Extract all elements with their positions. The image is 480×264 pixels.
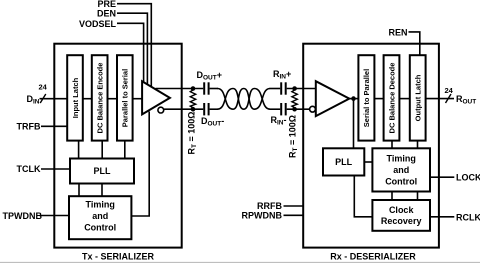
svg-text:TPWDNB: TPWDNB — [3, 211, 43, 221]
svg-text:Timing: Timing — [387, 154, 416, 164]
bus slash ROUT — [446, 94, 452, 103]
svg-text:TCLK: TCLK — [17, 164, 41, 174]
svg-text:Rx - DESERIALIZER: Rx - DESERIALIZER — [330, 251, 416, 261]
svg-text:Output Latch: Output Latch — [414, 74, 423, 121]
svg-text:LOCK: LOCK — [456, 173, 480, 183]
block DC Balance Decode — [384, 55, 400, 140]
wire DOUT+ — [156, 88, 204, 90]
wire Parallel to Serial to PLL — [124, 141, 126, 159]
svg-text:Serial to Parallel: Serial to Parallel — [362, 69, 371, 127]
wire DOUT- — [164, 108, 204, 110]
wire Serial to Parallel to DC Balance Decode — [374, 98, 383, 100]
inversion bubble (Rx comparator) — [310, 106, 316, 112]
svg-text:RPWDNB: RPWDNB — [242, 211, 283, 221]
junction dot DOUT+ — [191, 86, 196, 91]
wire TPWDNB — [40, 215, 69, 217]
wire DIN — [40, 98, 68, 100]
svg-text:RT = 100Ω: RT = 100Ω — [287, 115, 298, 158]
block PLL (Tx) — [70, 159, 134, 184]
svg-text:Tx - SERIALIZER: Tx - SERIALIZER — [82, 251, 155, 261]
inversion bubble (Tx driver) — [158, 107, 164, 113]
twisted pair cable wire B — [218, 89, 271, 110]
block Output Latch — [410, 55, 426, 140]
wire cap to twisted pair (top) — [210, 88, 218, 90]
wire PRE — [117, 4, 151, 87]
wire twisted pair to Rx cap (bottom) — [270, 108, 281, 110]
block PLL (Rx) — [323, 148, 364, 175]
wire PLL to Clock Recovery — [354, 176, 372, 217]
capacitor RIN- — [281, 103, 286, 115]
wire RIN- into Rx — [287, 108, 310, 110]
bus slash DIN — [40, 94, 46, 103]
wire DC Balance Encode to Parallel to Serial — [108, 98, 118, 100]
svg-text:DEN: DEN — [97, 9, 116, 19]
junction dot RIN- — [292, 107, 297, 112]
wire comparator output to PLL — [353, 99, 355, 149]
wire twisted pair to Rx cap (top) — [270, 88, 281, 90]
svg-text:and: and — [393, 165, 409, 175]
svg-text:24: 24 — [39, 82, 48, 91]
svg-text:24: 24 — [445, 86, 454, 95]
wire RRFB — [284, 205, 304, 207]
junction dot DOUT- — [191, 107, 196, 112]
svg-text:Timing: Timing — [86, 200, 115, 210]
svg-text:PLL: PLL — [94, 166, 112, 176]
wire REN — [409, 32, 420, 55]
wire LOCK — [430, 176, 454, 178]
wire RCLK — [430, 216, 454, 218]
Rx box outline — [303, 44, 439, 248]
wire TRFB — [41, 125, 67, 127]
svg-text:Control: Control — [84, 223, 116, 233]
wire DEN — [117, 13, 147, 84]
svg-text:and: and — [92, 211, 108, 221]
wire RIN+ into Rx — [287, 88, 316, 90]
svg-text:REN: REN — [388, 27, 407, 37]
wire Timing and Control to Clock Recovery left — [391, 192, 393, 201]
wire PLL to Timing and Control (Rx) — [364, 161, 372, 163]
svg-text:RT = 100Ω: RT = 100Ω — [187, 112, 198, 155]
twisted pair cable wire A — [218, 89, 271, 110]
junction dot RIN+ — [292, 86, 297, 91]
svg-text:PRE: PRE — [97, 0, 116, 9]
svg-text:DC Balance Decode: DC Balance Decode — [387, 63, 396, 134]
svg-text:Control: Control — [385, 177, 417, 187]
wire Output Latch to Timing and Control — [417, 141, 419, 149]
block Parallel to Serial — [117, 55, 133, 140]
wire PLL to Timing and Control left — [78, 184, 80, 197]
Tx box outline — [54, 44, 181, 248]
wire RPWDNB — [284, 214, 304, 216]
wire Parallel to Serial to driver — [133, 98, 143, 100]
wire DC Balance Decode to Timing and Control — [391, 141, 393, 149]
wire cap to twisted pair (bottom) — [210, 108, 218, 110]
capacitor RIN+ — [281, 82, 286, 94]
wire Input Latch to DC Balance Encode — [83, 98, 92, 100]
op-amp output driver (Tx) — [142, 81, 170, 114]
wire Output Latch to ROUT — [426, 98, 454, 100]
wire DC Balance Decode to Output Latch — [399, 98, 409, 100]
capacitor DOUT- — [204, 103, 208, 115]
svg-text:Input Latch: Input Latch — [71, 77, 80, 118]
resistor RT (Rx) — [292, 89, 297, 110]
wire Timing and Control to driver — [131, 112, 149, 217]
svg-text:RCLK: RCLK — [456, 212, 480, 222]
block Timing and Control (Tx) — [69, 196, 131, 239]
footer rule — [0, 261, 480, 263]
svg-text:Recovery: Recovery — [381, 216, 422, 226]
svg-text:DC Balance Encode: DC Balance Encode — [95, 63, 104, 134]
block Clock Recovery — [372, 200, 430, 231]
wire VODSEL — [117, 23, 144, 82]
svg-text:Parallel to Serial: Parallel to Serial — [121, 69, 130, 127]
junction dot comparator output — [351, 96, 356, 101]
wire DC Balance Encode to PLL — [101, 141, 103, 159]
block Timing and Control (Rx) — [372, 148, 430, 191]
op-amp input comparator (Rx) — [316, 81, 350, 116]
svg-text:VODSEL: VODSEL — [79, 19, 117, 29]
wire PLL to Timing and Control right — [101, 184, 103, 197]
wire TCLK — [41, 168, 70, 170]
resistor RT (Tx) — [190, 89, 195, 110]
wire Input Latch to PLL — [78, 141, 80, 159]
svg-text:PLL: PLL — [335, 157, 353, 167]
svg-text:Clock: Clock — [389, 205, 415, 215]
wire comparator to Serial to Parallel — [349, 98, 358, 100]
block Input Latch — [67, 55, 83, 140]
block Serial to Parallel — [358, 55, 374, 140]
capacitor DOUT+ — [204, 82, 208, 94]
wire Timing and Control to Clock Recovery right — [417, 192, 419, 201]
svg-text:TRFB: TRFB — [17, 122, 41, 132]
block DC Balance Encode — [92, 55, 108, 140]
